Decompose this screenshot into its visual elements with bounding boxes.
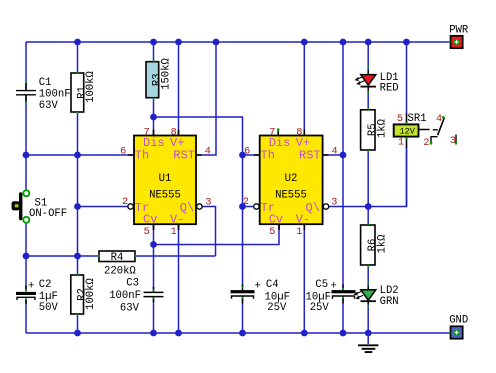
svg-text:PWR: PWR [449, 25, 469, 37]
svg-text:63V: 63V [39, 100, 59, 112]
capacitor C4 [231, 279, 290, 314]
svg-text:Cv: Cv [269, 213, 283, 227]
svg-text:+: + [255, 281, 261, 293]
wire left rail upper (rail to C1) [25, 42, 27, 90]
resistor R3 [146, 57, 173, 97]
switch S1 [12, 190, 68, 223]
wire R3 node to U2 column [154, 117, 243, 288]
svg-text:2: 2 [423, 138, 429, 149]
svg-text:150kΩ: 150kΩ [161, 57, 173, 89]
resistor R1 [71, 70, 97, 112]
svg-text:3: 3 [205, 198, 211, 209]
svg-text:RED: RED [380, 82, 399, 94]
svg-text:R4: R4 [111, 252, 124, 264]
wire R5 bottom to Q node [367, 150, 369, 207]
IC timer U1 NE555 [120, 127, 211, 238]
wire R1 bottom to R2 top [77, 112, 79, 275]
svg-text:NE555: NE555 [275, 189, 307, 201]
wire Q node to R6 top [367, 207, 369, 226]
green pin tick marks [25, 41, 451, 334]
svg-text:4: 4 [332, 147, 338, 158]
capacitor C2 [16, 279, 59, 314]
svg-text:SR1: SR1 [408, 113, 427, 125]
wire bottom ground rail [26, 332, 450, 334]
wire R3 bottom to U1 pin7 [153, 98, 155, 136]
wire C5 column top [342, 42, 344, 290]
wire U1 pin1 V- to ground [178, 224, 180, 333]
resistor R4 [99, 251, 136, 278]
svg-text:63V: 63V [120, 303, 140, 315]
power node PWR [449, 25, 469, 49]
svg-text:1kΩ: 1kΩ [377, 234, 389, 254]
svg-text:6: 6 [244, 147, 250, 158]
svg-text:25V: 25V [267, 302, 287, 314]
IC timer U2 NE555 [243, 127, 338, 238]
svg-text:100kΩ: 100kΩ [85, 277, 97, 309]
wire LED2 to ground rail [367, 304, 369, 333]
resistor R5 [361, 110, 389, 150]
svg-text:RST: RST [299, 149, 321, 163]
svg-text:100nF: 100nF [39, 89, 71, 101]
svg-text:3: 3 [450, 136, 456, 147]
svg-text:V-: V- [170, 213, 184, 227]
wire C3 to ground rail [153, 298, 155, 333]
ground node GND [449, 315, 468, 339]
wire U2 column below C4 [242, 297, 244, 333]
wire U1 pin5 Cv [153, 224, 155, 244]
svg-text:6: 6 [120, 147, 126, 158]
svg-text:C2: C2 [39, 279, 52, 291]
svg-text:8: 8 [171, 127, 177, 138]
svg-text:100nF: 100nF [109, 290, 141, 302]
svg-text:7: 7 [269, 127, 275, 138]
wire U1 pin8 V+ [178, 42, 180, 136]
wire U1 pin3 Q out [202, 207, 215, 257]
svg-text:100kΩ: 100kΩ [85, 70, 97, 102]
resistor R6 [361, 225, 389, 265]
svg-text:5: 5 [269, 227, 275, 238]
wire LED1 column top [367, 42, 369, 70]
node junction dots [23, 39, 410, 337]
svg-text:C3: C3 [126, 278, 139, 290]
capacitor C1 [16, 77, 71, 112]
wire R1 top [77, 42, 79, 73]
svg-text:ON-OFF: ON-OFF [29, 208, 67, 220]
wire R2 bottom [77, 314, 79, 333]
wire left rail C1 to S1 [25, 96, 27, 191]
svg-text:7: 7 [144, 127, 150, 138]
wire U2 pin4 RST [323, 154, 343, 156]
svg-text:1: 1 [296, 227, 302, 238]
svg-text:C1: C1 [39, 77, 52, 89]
wire U2 pin2 Tr [243, 206, 255, 208]
wire SR1 coil bottom stub [406, 148, 408, 207]
LED LD1 [356, 70, 399, 94]
svg-text:220kΩ: 220kΩ [104, 266, 136, 278]
LED LD2 [355, 285, 399, 308]
svg-text:GND: GND [449, 315, 468, 327]
wire R4 right to Q1 drop [135, 255, 216, 257]
svg-text:C5: C5 [315, 279, 328, 291]
wire SR1 coil top [406, 42, 408, 113]
wire U1 pin4 RST to top rail [196, 42, 216, 155]
svg-text:1: 1 [398, 137, 404, 148]
svg-text:4: 4 [205, 147, 211, 158]
svg-text:1µF: 1µF [39, 291, 58, 303]
wire U2 pin3 Q to relay [329, 148, 407, 207]
wire U1 pin2 Tr [78, 206, 128, 208]
ground symbol [358, 345, 378, 352]
wire C5 column bottom [342, 297, 344, 333]
relay SR1 contact [419, 114, 458, 149]
svg-text:V-: V- [296, 213, 310, 227]
wire R6 bottom to LED2 [367, 265, 369, 286]
svg-text:Cv: Cv [143, 213, 157, 227]
svg-text:Th: Th [135, 149, 149, 163]
resistor R2 [71, 275, 97, 314]
wire Cv net U1 to U2 [154, 224, 280, 244]
svg-text:12V: 12V [400, 127, 416, 137]
svg-text:Th: Th [261, 149, 275, 163]
wire ground symbol stub [367, 333, 369, 344]
wire U2 pin1 V- to ground [303, 224, 305, 333]
svg-text:1kΩ: 1kΩ [377, 118, 389, 138]
wire left rail S1 to node [25, 223, 27, 291]
svg-text:1: 1 [171, 227, 177, 238]
svg-text:+: + [28, 281, 34, 293]
svg-text:U2: U2 [285, 173, 298, 185]
capacitor C5 [306, 279, 356, 314]
wire R3 top stub [153, 42, 155, 62]
svg-text:2: 2 [243, 197, 249, 208]
svg-text:GRN: GRN [380, 296, 399, 308]
svg-text:2: 2 [122, 197, 128, 208]
wire Cv node to C3 [153, 245, 155, 292]
wire U1 pin6 Th [26, 154, 134, 156]
svg-text:RST: RST [173, 149, 195, 163]
svg-text:25V: 25V [310, 302, 330, 314]
wire left rail C2 to ground rail [25, 298, 27, 333]
wire top power rail [26, 41, 450, 43]
wire LED1 to R5 [367, 91, 369, 110]
svg-text:4: 4 [436, 114, 442, 125]
svg-text:3: 3 [331, 198, 337, 209]
capacitor C3 [109, 278, 163, 315]
wire U2 pin6 Th [243, 154, 260, 156]
svg-text:5: 5 [144, 227, 150, 238]
svg-text:50V: 50V [39, 302, 59, 314]
wire U2 pin8 V+ [303, 42, 305, 136]
svg-text:NE555: NE555 [149, 189, 181, 201]
svg-text:+: + [331, 281, 337, 293]
svg-text:5: 5 [397, 114, 403, 125]
svg-text:8: 8 [296, 127, 302, 138]
wire node to R4 left [26, 255, 99, 257]
relay SR1 coil [394, 113, 427, 149]
svg-text:U1: U1 [159, 173, 172, 185]
svg-text:C4: C4 [266, 279, 279, 291]
